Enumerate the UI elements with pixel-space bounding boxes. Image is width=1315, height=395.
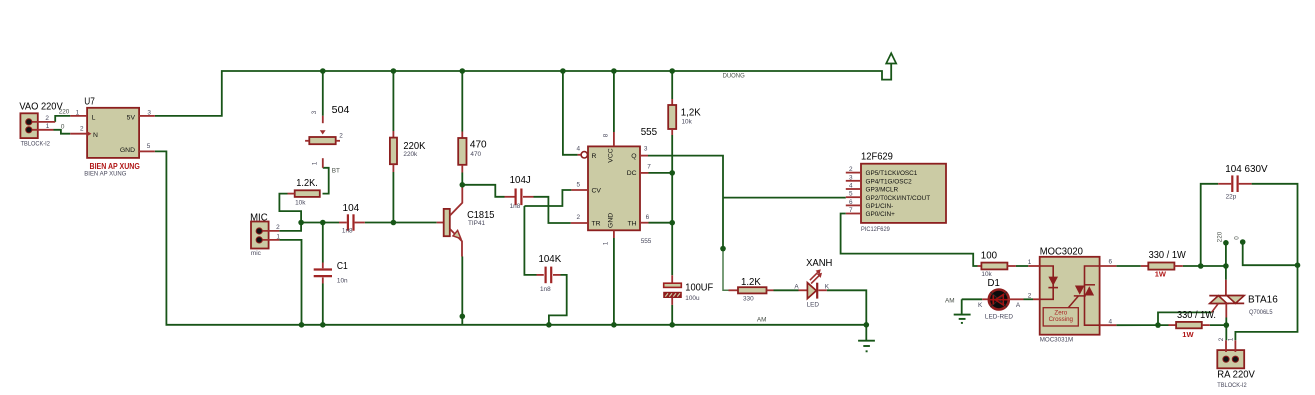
wire C1 bottom to rail	[322, 284, 324, 325]
wire rail drop to 220K top	[392, 71, 394, 131]
svg-text:100: 100	[981, 251, 997, 262]
svg-text:1n8: 1n8	[510, 203, 521, 210]
svg-text:1.2K.: 1.2K.	[296, 178, 318, 189]
wire node down to cap 104K	[524, 206, 536, 275]
wire D1 anode to MOC3020 pin2	[1024, 298, 1034, 300]
wire cap 104J to 555 TR	[534, 197, 571, 223]
wire 330/1W lower right to RA node	[1210, 324, 1227, 326]
wire 470 bottom to collector node	[461, 173, 463, 185]
svg-text:AM: AM	[945, 298, 955, 305]
timer U 555	[571, 132, 649, 238]
svg-text:MOC3031M: MOC3031M	[1040, 336, 1074, 343]
svg-text:GP4/T1G/OSC2: GP4/T1G/OSC2	[866, 178, 913, 185]
svg-text:470: 470	[470, 151, 481, 158]
wire MIC pin1 to rail	[279, 240, 301, 325]
resistor 330/1W lower	[1169, 322, 1210, 328]
svg-text:0: 0	[61, 123, 65, 130]
diode D1 LED-RED	[982, 290, 1023, 310]
svg-text:U7: U7	[84, 96, 95, 107]
wire cap 104 630V right leg 0 net	[1235, 184, 1297, 340]
svg-text:TR: TR	[592, 220, 601, 227]
svg-text:504: 504	[332, 105, 350, 116]
svg-text:2: 2	[1218, 337, 1225, 341]
resistor 220K 220k	[390, 131, 397, 172]
svg-text:1: 1	[76, 109, 80, 116]
wire 330/1W to triac node	[1183, 265, 1226, 267]
svg-text:MOC3020: MOC3020	[1040, 247, 1083, 258]
svg-text:555: 555	[641, 238, 652, 245]
resistor 100 10k	[978, 263, 1016, 270]
wire 555 TH to vertical node	[649, 222, 673, 224]
svg-text:104K: 104K	[539, 254, 562, 265]
svg-text:1W: 1W	[1155, 270, 1167, 279]
svg-text:100u: 100u	[685, 295, 700, 302]
wire cap 104 to 220K node	[365, 222, 394, 224]
svg-text:Q7006L5: Q7006L5	[1249, 309, 1273, 316]
capacitor 100UF 100u electrolytic	[664, 275, 682, 305]
svg-text:6: 6	[646, 214, 650, 221]
wire C1 top	[322, 223, 324, 263]
svg-text:1,2K: 1,2K	[681, 108, 701, 119]
svg-text:TIP41: TIP41	[468, 220, 485, 227]
svg-text:5: 5	[849, 191, 853, 198]
svg-text:K: K	[825, 283, 830, 290]
svg-text:1: 1	[276, 233, 280, 240]
svg-text:1: 1	[1028, 259, 1032, 266]
svg-text:GP3/MCLR: GP3/MCLR	[866, 187, 899, 194]
wire U7 GND to bottom rail AM	[155, 151, 867, 324]
wire 555 GND pin to rail	[613, 238, 615, 325]
wire gate branch	[1158, 312, 1212, 325]
wire VAO pin2 to U7 L	[55, 116, 70, 122]
svg-text:VCC: VCC	[608, 148, 615, 162]
svg-text:220k: 220k	[403, 151, 418, 158]
wire pot BT to 1.2K right	[323, 168, 329, 194]
svg-text:D1: D1	[988, 278, 1001, 289]
svg-text:3: 3	[849, 174, 853, 181]
svg-text:GND: GND	[120, 147, 135, 154]
svg-text:3: 3	[147, 110, 151, 117]
capacitor 104K 1n8	[537, 267, 561, 284]
wire 1.2K 330 to LED XANH	[774, 289, 799, 291]
wire rail drop to pot 504 pin3	[322, 71, 324, 116]
svg-text:R: R	[592, 153, 597, 160]
svg-text:1.2K: 1.2K	[741, 277, 761, 288]
svg-text:470: 470	[470, 140, 487, 151]
wire 220K node to Q1 base	[393, 222, 436, 224]
SECTION: texts	[19, 73, 1278, 390]
wire MOC3020 pin6 to 330/1W	[1116, 265, 1141, 267]
transformer U7 BIEN AP XUNG	[70, 108, 155, 158]
svg-text:6: 6	[1109, 258, 1113, 265]
wire VAO pin1 to U7 N	[54, 130, 71, 134]
svg-text:0: 0	[1234, 236, 1241, 240]
wire 1,2K bottom through DC and TH nodes to 100UF	[671, 135, 673, 275]
svg-text:330: 330	[743, 296, 754, 303]
svg-text:5V: 5V	[127, 114, 136, 121]
svg-text:7: 7	[849, 207, 853, 214]
svg-text:A: A	[1016, 302, 1021, 309]
svg-text:PIC12F629: PIC12F629	[861, 226, 890, 233]
wire LED XANH to rail end	[827, 290, 867, 325]
svg-text:BTA16: BTA16	[1248, 295, 1278, 306]
svg-text:4: 4	[1109, 318, 1113, 325]
svg-text:VAO 220V: VAO 220V	[19, 102, 62, 113]
ground symbol near D1	[954, 315, 971, 323]
svg-text:1n8: 1n8	[540, 286, 551, 293]
svg-text:1W: 1W	[1182, 330, 1194, 339]
resistor 470	[458, 132, 466, 173]
wire MIC pin2 to signal node	[279, 223, 301, 231]
svg-text:10k: 10k	[295, 200, 306, 207]
wire collector node to cap 104J	[462, 185, 504, 197]
svg-text:3: 3	[311, 110, 318, 114]
resistor 330/1W upper	[1141, 263, 1183, 270]
svg-text:5: 5	[577, 181, 581, 188]
svg-text:10k: 10k	[682, 119, 693, 126]
svg-text:Q: Q	[631, 153, 636, 160]
svg-text:4: 4	[577, 146, 581, 153]
svg-text:RA 220V: RA 220V	[1217, 370, 1255, 381]
svg-text:GP2/T0CKI/INT/COUT: GP2/T0CKI/INT/COUT	[866, 195, 931, 202]
terminal J VAO 220V TBLOCK-I2	[20, 113, 55, 138]
svg-text:Crossing: Crossing	[1049, 316, 1074, 323]
wire rail drop to 555 R pin	[563, 71, 578, 155]
wire emitter to rail	[461, 257, 463, 325]
wire 555 DC to vertical node	[649, 172, 673, 174]
wire 0 stub	[1243, 242, 1298, 265]
svg-text:2: 2	[45, 115, 49, 122]
svg-text:1: 1	[603, 241, 610, 245]
svg-text:LED: LED	[807, 302, 820, 309]
wire ground2 stem	[961, 299, 963, 314]
svg-text:330 / 1W.: 330 / 1W.	[1177, 310, 1216, 321]
wire 100UF bottom to rail	[671, 305, 673, 325]
SECTION: components	[20, 68, 1300, 368]
wire DUONG top rail from U7 5V	[155, 57, 891, 116]
svg-text:AM: AM	[757, 317, 767, 324]
wire node to 555 CV	[524, 190, 571, 206]
svg-text:12F629: 12F629	[861, 151, 893, 162]
svg-text:K: K	[978, 302, 983, 309]
svg-text:2: 2	[80, 125, 84, 132]
svg-text:DC: DC	[627, 170, 637, 177]
svg-text:7: 7	[647, 164, 651, 171]
optocoupler U MOC3020 MOC3031M	[1028, 257, 1116, 335]
svg-text:220: 220	[1217, 231, 1224, 242]
svg-text:10n: 10n	[337, 277, 348, 284]
svg-text:TBLOCK-I2: TBLOCK-I2	[21, 141, 51, 148]
LED XANH	[799, 269, 827, 298]
svg-text:1: 1	[46, 123, 50, 130]
svg-text:3: 3	[644, 146, 648, 153]
SECTION: wires	[54, 53, 1298, 340]
svg-text:2: 2	[849, 166, 853, 173]
resistor R 1.2K. 10k	[288, 190, 320, 197]
wire cap 104 630V left leg	[1201, 184, 1219, 266]
svg-text:2: 2	[339, 133, 343, 140]
svg-text:5: 5	[147, 143, 151, 150]
mcu U 12F629 PIC12F629	[846, 164, 946, 223]
svg-text:TH: TH	[628, 220, 637, 227]
svg-text:104J: 104J	[510, 175, 531, 186]
ground symbol rail AM	[858, 325, 875, 352]
wire rail drop to resistor 1,2K top	[671, 71, 673, 99]
power flag DUONG arrow	[886, 53, 896, 63]
wire 555 Q down to LED branch	[648, 156, 723, 249]
svg-text:1n8: 1n8	[342, 227, 353, 234]
wire signal node to cap 104	[301, 222, 339, 224]
svg-text:GP5/T1CKI/OSC1: GP5/T1CKI/OSC1	[866, 170, 918, 177]
svg-text:8: 8	[603, 133, 610, 137]
svg-text:555: 555	[641, 127, 658, 138]
svg-text:XANH: XANH	[806, 258, 832, 269]
wire ground to D1 cathode	[962, 298, 983, 300]
resistor 1.2K 330	[729, 287, 774, 293]
svg-text:2: 2	[1028, 293, 1032, 300]
svg-text:1: 1	[312, 161, 319, 165]
svg-text:1: 1	[1227, 337, 1234, 341]
svg-text:104 630V: 104 630V	[1225, 164, 1267, 175]
capacitor 104 1n8	[339, 214, 365, 230]
svg-text:A: A	[794, 283, 799, 290]
svg-text:100UF: 100UF	[685, 282, 713, 293]
svg-text:MIC: MIC	[250, 212, 268, 223]
triac BTA16 Q7006L5	[1209, 280, 1244, 318]
transistor Q C1815 TIP41	[437, 185, 463, 257]
svg-text:BT: BT	[332, 168, 340, 175]
wire resistor 100 to MOC3020 pin1	[1016, 265, 1028, 267]
capacitor 104 630V 22p	[1218, 175, 1251, 192]
terminal MIC mic	[251, 222, 279, 249]
wire 1.2K left to signal node	[279, 194, 301, 223]
terminal RA 220V TBLOCK-I2	[1217, 340, 1244, 368]
svg-text:4: 4	[849, 183, 853, 190]
resistor 1,2K 10k	[668, 99, 676, 135]
wire triac T1 to RA pin2	[1225, 318, 1227, 341]
wire 12F629 GP0 down and right to resistor 100	[841, 214, 978, 267]
svg-text:220: 220	[59, 108, 70, 115]
wire 220 stub	[1225, 243, 1227, 266]
svg-text:330 / 1W: 330 / 1W	[1149, 250, 1186, 261]
svg-text:mic: mic	[251, 250, 262, 257]
svg-text:6: 6	[849, 199, 853, 206]
wire rail drop to 555 VCC	[613, 71, 615, 132]
svg-text:22p: 22p	[1226, 193, 1237, 200]
capacitor C1 10n	[314, 263, 332, 284]
wire Q branch to 12F629 GP2	[723, 197, 846, 199]
svg-text:GP1/CIN-: GP1/CIN-	[866, 203, 894, 210]
svg-text:N: N	[93, 132, 98, 139]
svg-text:GND: GND	[608, 213, 615, 228]
potentiometer RV 504	[305, 116, 340, 168]
svg-text:LED-RED: LED-RED	[985, 314, 1013, 321]
svg-text:BIEN AP XUNG: BIEN AP XUNG	[84, 170, 126, 177]
wire light segment to 1.2K 330	[723, 249, 729, 291]
capacitor 104J 1n8	[505, 189, 534, 206]
wire triac T2	[1225, 266, 1227, 280]
svg-text:DUONG: DUONG	[723, 73, 745, 80]
svg-text:GP0/CIN+: GP0/CIN+	[866, 211, 896, 218]
wire rail drop to 470 top	[461, 71, 463, 132]
svg-text:2: 2	[577, 214, 581, 221]
svg-text:104: 104	[343, 203, 360, 214]
svg-text:CV: CV	[592, 187, 602, 194]
svg-text:C1: C1	[337, 261, 348, 272]
wire 220K bottom to signal node	[392, 172, 394, 222]
wire cap 104K right to rail	[549, 275, 567, 325]
wire MOC3020 pin4 to 330/1W lower	[1116, 324, 1168, 326]
svg-text:L: L	[92, 114, 96, 121]
svg-text:2: 2	[276, 224, 280, 231]
svg-text:TBLOCK-I2: TBLOCK-I2	[1217, 382, 1247, 389]
